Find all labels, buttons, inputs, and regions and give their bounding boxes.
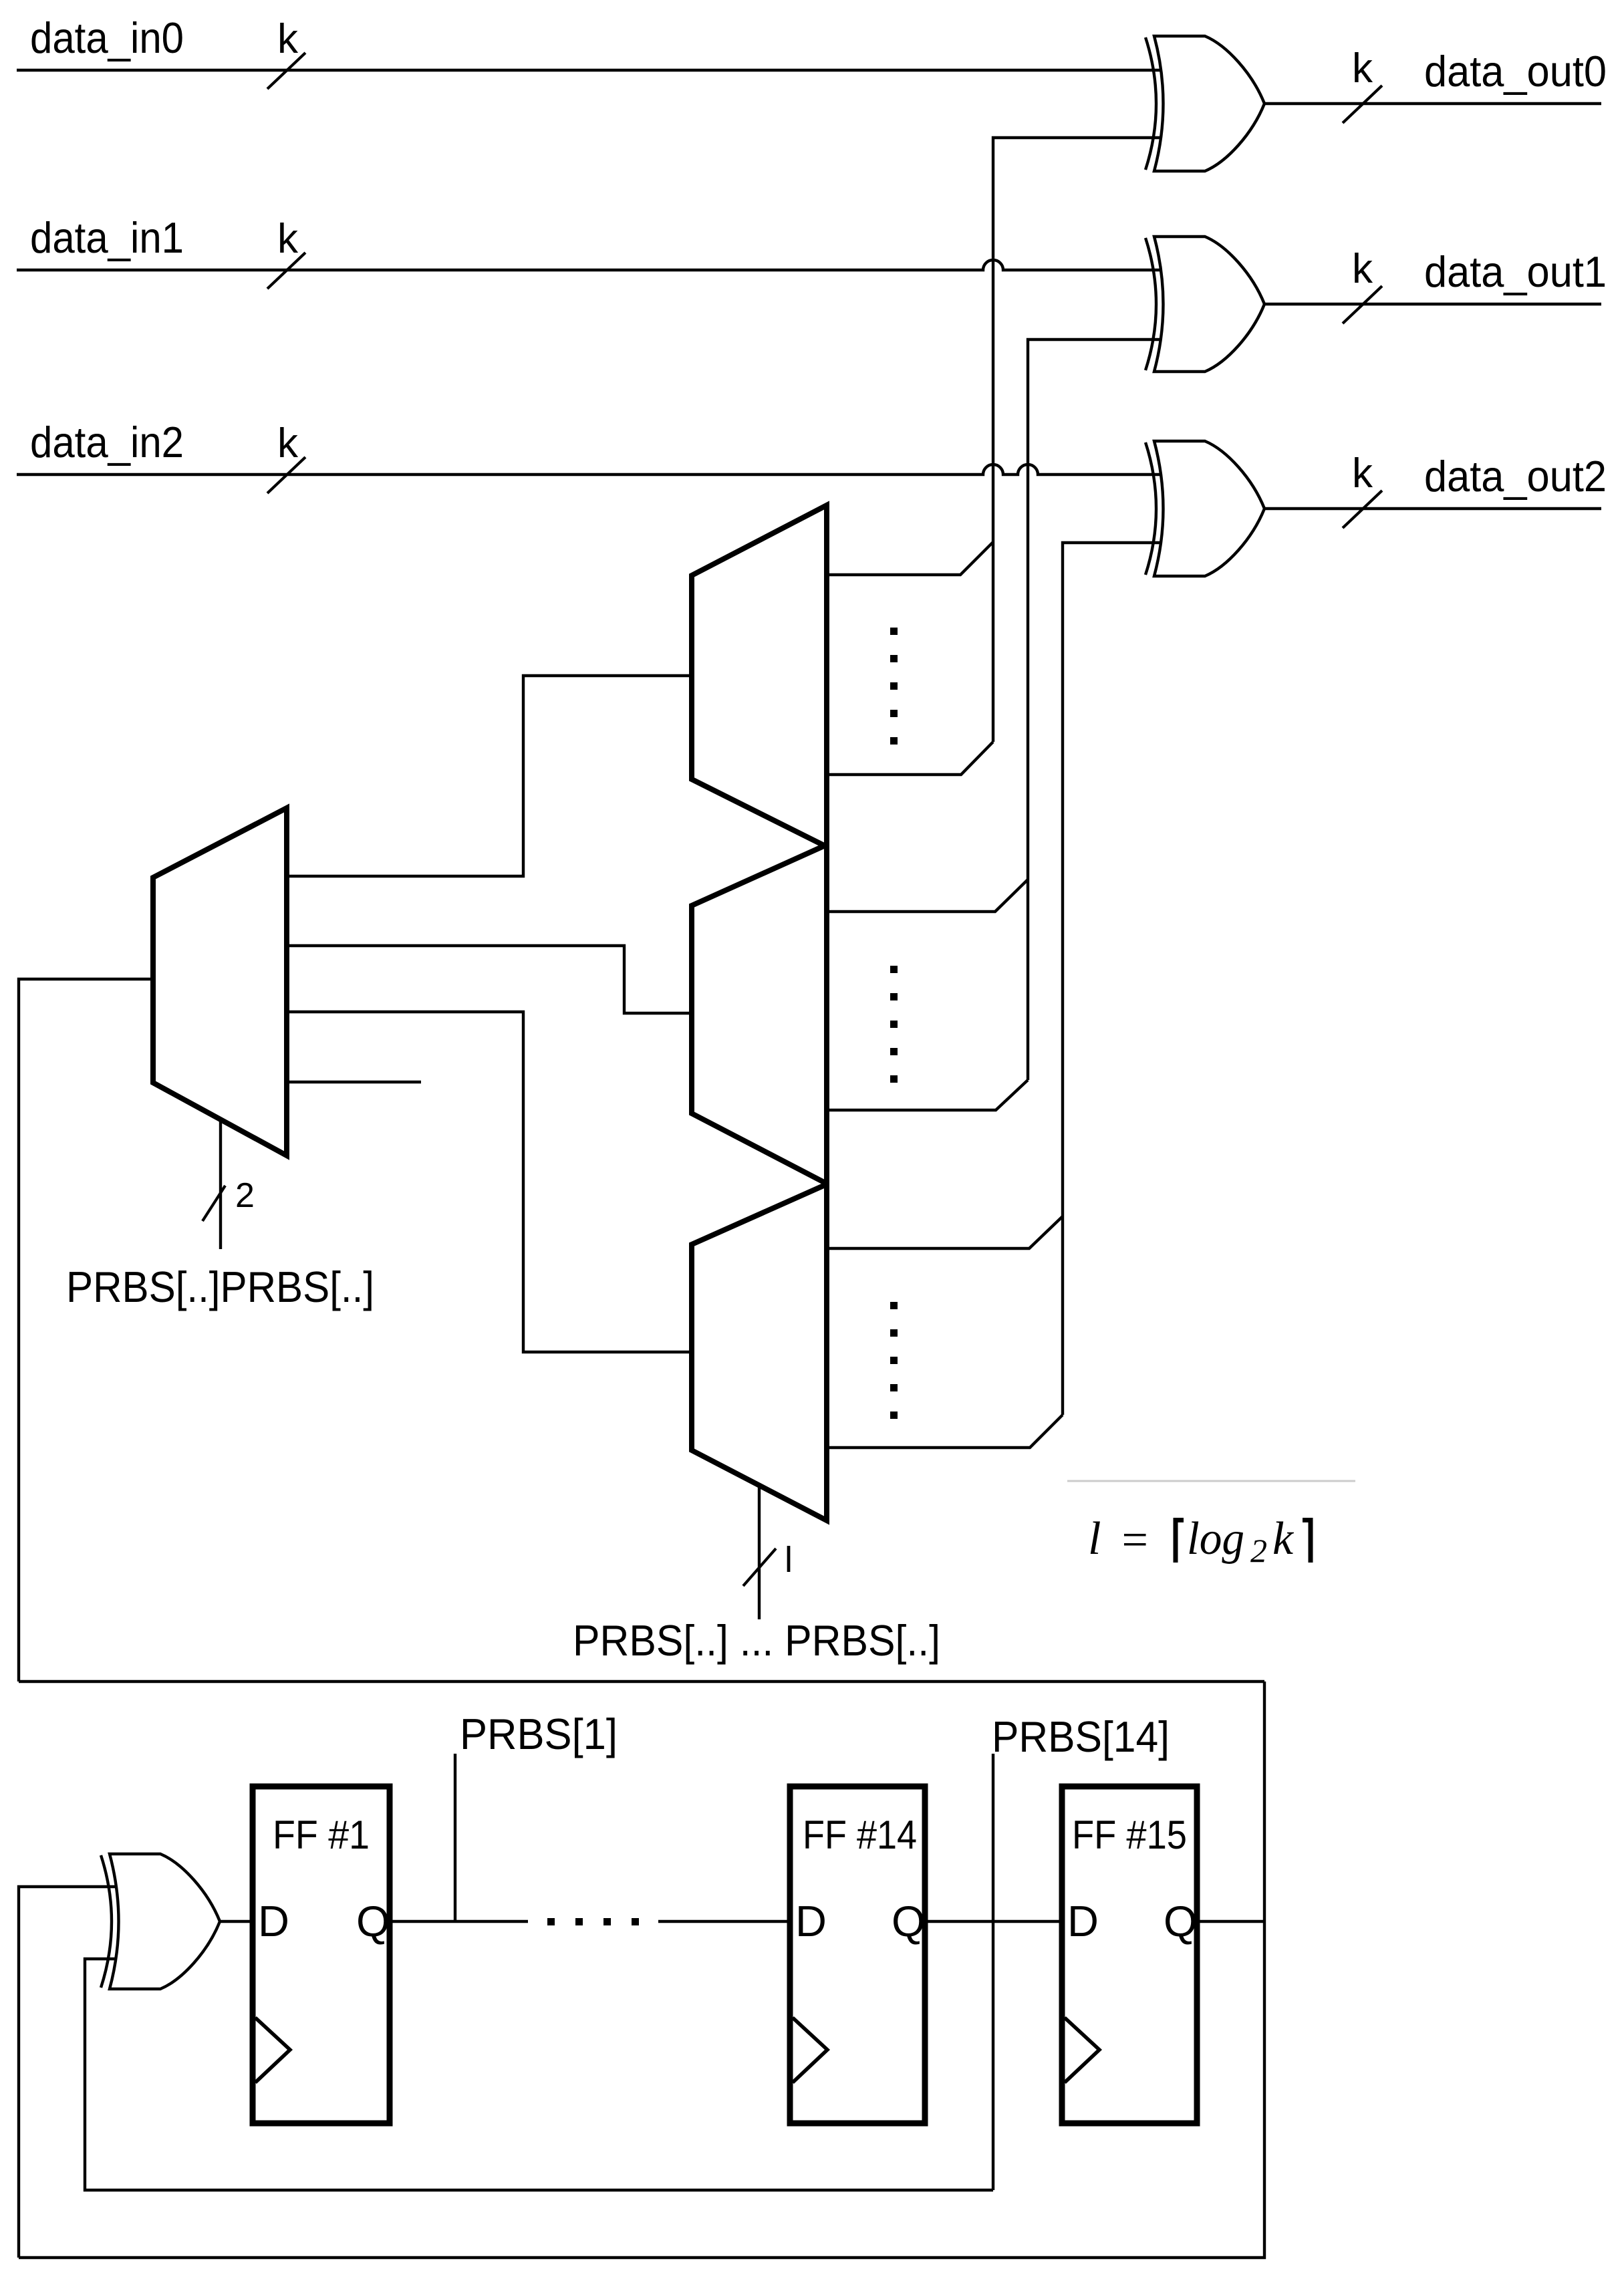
xor gate U3 (data_out2) — [1145, 441, 1264, 576]
flip-flop FF #14 box — [790, 1786, 925, 2123]
svg-text:PRBS[14]: PRBS[14] — [992, 1712, 1170, 1761]
node bus bundle of MUX1 (k lines) — [827, 542, 993, 775]
wire LFSR feedback loop: FF15 Q right edge and bottom edge — [19, 1682, 1264, 2258]
svg-text:FF #1: FF #1 — [273, 1812, 370, 1857]
flip-flop FF #1 box — [253, 1786, 390, 2123]
wire data_in2 bus (hops over two vertical wires) — [17, 464, 1164, 475]
slash bus-width mark data_out1 — [1343, 286, 1382, 323]
svg-text:PRBS[..]PRBS[..]: PRBS[..]PRBS[..] — [66, 1262, 374, 1311]
xor gate U4 (LFSR feedback) — [101, 1854, 220, 1989]
wire MUX3 select line (l bits) — [758, 1485, 761, 1619]
wire FF14 Q to FF15 D — [925, 1920, 1062, 1923]
wire XOR U1 lower input from MUX1 bus riser — [993, 138, 1166, 742]
formula ceiling brackets — [1174, 1518, 1313, 1563]
wire data_out2 bus — [1264, 507, 1601, 510]
svg-text:k: k — [1352, 45, 1373, 92]
svg-text:PRBS[1]: PRBS[1] — [460, 1710, 618, 1758]
node ellipsis dots inside MUX2 bundle — [890, 966, 898, 1083]
svg-text:PRBS[..] ... PRBS[..]: PRBS[..] ... PRBS[..] — [573, 1616, 940, 1665]
wire XOR U4 lower input from FF14 Q feedback — [85, 1959, 993, 2190]
wire XOR U2 lower input from MUX2 bus riser — [1028, 340, 1166, 1080]
formula l = ceil(log2 k) — [1088, 1513, 1295, 1569]
wire PRBS[15] from LFSR loop up to MUX5 input — [19, 979, 153, 1682]
svg-text:data_out2: data_out2 — [1424, 452, 1607, 501]
svg-text:data_out0: data_out0 — [1424, 47, 1607, 96]
flip-flop FF #15 clock triangle — [1065, 2018, 1099, 2082]
node ellipsis dots on LFSR chain between FF1 and FF14 — [547, 1918, 639, 1925]
node ellipsis dots inside MUX3 bundle — [890, 1302, 898, 1419]
slash bus-width mark MUX5 select — [202, 1186, 225, 1221]
svg-text:k: k — [1352, 246, 1373, 292]
wire XOR U4 output to FF1 D — [220, 1920, 253, 1923]
svg-text:l: l — [1088, 1513, 1101, 1565]
mux MUX3 (k-line selector for lane 2) — [692, 1184, 827, 1520]
divider grey line above formula — [1067, 1480, 1355, 1482]
svg-text:k: k — [277, 420, 299, 466]
svg-text:log: log — [1187, 1513, 1244, 1565]
wire data_out1 bus — [1264, 303, 1601, 305]
mux MUX2 (k-line selector for lane 1) — [692, 845, 827, 1184]
svg-text:2: 2 — [1250, 1532, 1267, 1569]
wire data_in1 bus — [17, 260, 1166, 270]
svg-text:data_out1: data_out1 — [1424, 247, 1607, 296]
wire data_in0 bus — [17, 69, 1166, 72]
wire MUX5 output A to MUX1 select input — [287, 676, 692, 876]
node bus bundle of MUX3 (k lines) — [827, 1216, 1063, 1448]
slash bus-width mark data_out2 — [1343, 491, 1382, 528]
svg-text:data_in2: data_in2 — [30, 418, 184, 466]
wire XOR U3 lower input from MUX3 bus riser — [1063, 543, 1164, 1415]
slash bus-width mark MUX3 select — [743, 1549, 776, 1586]
flip-flop FF #15 box — [1062, 1786, 1197, 2123]
slash bus-width mark data_in0 — [267, 53, 305, 89]
wire MUX5 output B to MUX2 select input — [287, 946, 692, 1013]
wire PRBS box top edge — [19, 1680, 1264, 1683]
svg-text:D: D — [1067, 1897, 1099, 1945]
slash bus-width mark data_in2 — [267, 457, 305, 493]
svg-text:k: k — [277, 16, 299, 62]
wire MUX5 output C to MUX3 select input — [287, 1012, 692, 1352]
svg-text:data_in0: data_in0 — [30, 13, 184, 62]
slash bus-width mark data_out0 — [1343, 86, 1382, 123]
wire FF1 Q line — [390, 1920, 528, 1923]
wire MUX5 select line (2 bits) — [219, 1119, 222, 1249]
wire data_out0 bus — [1264, 102, 1601, 105]
svg-text:Q: Q — [356, 1897, 390, 1945]
flip-flop FF #14 clock triangle — [793, 2018, 827, 2082]
svg-text:l: l — [785, 1540, 793, 1580]
svg-text:FF #15: FF #15 — [1072, 1812, 1187, 1857]
svg-text:=: = — [1119, 1514, 1150, 1566]
svg-text:FF #14: FF #14 — [803, 1812, 917, 1857]
svg-text:Q: Q — [1164, 1897, 1198, 1945]
wire chain line to FF14 D — [658, 1920, 790, 1923]
node bus bundle of MUX2 (k lines) — [827, 880, 1028, 1110]
wire PRBS[14] tap and feedback riser — [992, 1754, 994, 2190]
slash bus-width mark data_in1 — [267, 253, 305, 289]
mux MUX1 (k-line selector for lane 0) — [692, 505, 827, 847]
wire MUX5 output D stub — [287, 1081, 421, 1083]
xor gate U1 (data_out0) — [1145, 36, 1264, 171]
svg-text:2: 2 — [235, 1176, 255, 1215]
svg-text:k: k — [1272, 1513, 1295, 1565]
flip-flop FF #1 clock triangle — [255, 2018, 290, 2082]
svg-text:k: k — [1352, 450, 1373, 497]
mux MUX5 (4-input selector, select=2) — [153, 808, 287, 1156]
svg-text:D: D — [795, 1897, 827, 1945]
svg-text:data_in1: data_in1 — [30, 213, 184, 262]
xor gate U2 (data_out1) — [1145, 237, 1264, 372]
svg-text:k: k — [277, 216, 299, 262]
svg-text:D: D — [258, 1897, 289, 1945]
svg-text:Q: Q — [892, 1897, 926, 1945]
wire XOR U4 upper input tap — [19, 1887, 127, 2258]
wire PRBS[1] tap — [454, 1754, 456, 1921]
node ellipsis dots inside MUX1 bundle — [890, 628, 898, 745]
